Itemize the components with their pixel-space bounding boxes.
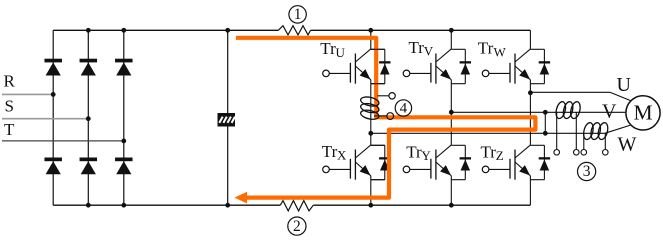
node top bus leg2	[86, 28, 91, 33]
label circled 3	[578, 162, 596, 180]
resistor 1 (circled-1) on top bus	[278, 26, 310, 35]
wire orange arrowhead (return to bus)	[235, 192, 248, 204]
node top bus leg3	[121, 28, 126, 33]
transistor TrU (IGBT)	[323, 49, 371, 84]
svg-text:R: R	[4, 72, 16, 91]
label TrY	[406, 142, 431, 163]
node U-leg bottom bus	[368, 203, 373, 208]
svg-text:4: 4	[400, 100, 408, 116]
wire CT-W secondary drop right	[604, 133, 606, 149]
label TrZ	[481, 142, 504, 163]
wire W-leg mid	[529, 80, 531, 145]
node R junction	[51, 92, 56, 97]
wire shorting link V to lower line	[544, 112, 546, 133]
node bottom bus leg2	[86, 203, 91, 208]
label TrV	[409, 38, 434, 59]
label circled 2	[288, 217, 306, 235]
wire rectifier leg 1 vertical	[52, 30, 54, 205]
wire U-leg bottom (TrX emitter to bus)	[370, 176, 372, 205]
label R	[4, 72, 16, 91]
label circled 4	[395, 100, 411, 116]
wire W-phase output slant to motor	[610, 92, 631, 101]
wire W-phase output horizontal	[530, 91, 610, 93]
wire top DC bus (right of resistor 1)	[311, 29, 531, 31]
motor M	[626, 96, 660, 130]
svg-text:W: W	[494, 44, 507, 59]
wire V-leg mid	[450, 80, 452, 145]
wire input R	[2, 93, 53, 95]
svg-text:T: T	[4, 120, 15, 139]
terminal CT-V left	[554, 150, 560, 156]
wire U-leg lower (node to TrX)	[370, 133, 372, 145]
diode TrV freewheel	[451, 49, 471, 83]
node V-leg top bus	[449, 28, 454, 33]
node capacitor top on bus	[225, 28, 230, 33]
node V-leg bottom bus	[449, 203, 454, 208]
diode D2 (upper rectifier)	[80, 59, 98, 76]
label circled 1	[289, 6, 306, 23]
terminal CT4 top	[389, 93, 395, 99]
diode TrW freewheel	[530, 49, 550, 83]
terminal CT4 bottom	[387, 113, 394, 120]
wire rectifier leg 2 vertical	[87, 30, 89, 205]
wire input S	[2, 118, 88, 120]
wire CT4 secondary bottom	[374, 115, 387, 117]
wire V-phase output	[451, 111, 626, 113]
diode D3 (upper rectifier)	[115, 59, 133, 76]
label TrU	[320, 39, 345, 60]
label T	[4, 120, 15, 139]
label S	[5, 97, 14, 116]
svg-text:2: 2	[293, 218, 301, 235]
resistor 2 (circled-2) on bottom bus	[280, 201, 313, 211]
diode TrX connectors overlay	[371, 145, 385, 179]
svg-text:3: 3	[583, 163, 591, 180]
svg-text:U: U	[336, 45, 346, 60]
svg-text:U: U	[617, 74, 632, 96]
diode D4 (lower rectifier)	[44, 158, 62, 175]
svg-text:V: V	[602, 101, 617, 123]
svg-text:Tr: Tr	[481, 142, 497, 161]
svg-text:X: X	[337, 148, 347, 163]
wire capacitor leg upper	[227, 30, 229, 113]
transistor TrW (IGBT)	[482, 49, 530, 84]
wire U-leg collector	[370, 30, 372, 49]
label V motor terminal	[602, 101, 617, 123]
diode TrU freewheel	[371, 49, 391, 83]
node T junction	[121, 139, 126, 144]
wire V-leg collector	[450, 30, 452, 49]
svg-text:Tr: Tr	[320, 39, 336, 58]
node S junction	[86, 116, 91, 121]
node bottom bus leg3	[121, 203, 126, 208]
wire W-leg bottom	[529, 176, 531, 205]
diode D6 (lower rectifier)	[115, 158, 133, 175]
svg-text:Tr: Tr	[322, 142, 338, 161]
wire input T	[2, 140, 124, 142]
label W motor terminal	[618, 133, 637, 155]
wire top DC bus (left of resistor 1)	[53, 29, 278, 31]
wire U-phase output (lower)	[371, 132, 605, 134]
transformer CT4 coil on U leg	[360, 95, 380, 120]
node link bottom	[543, 131, 548, 136]
svg-text:1: 1	[294, 6, 302, 23]
diode TrZ freewheel	[530, 145, 550, 179]
wire U-leg mid (emitter to node)	[370, 80, 372, 134]
transformer CT-W coil (circled-3 sensor)	[582, 122, 609, 141]
transistor TrY (IGBT)	[403, 145, 451, 180]
diode TrY freewheel	[451, 145, 471, 179]
svg-text:Tr: Tr	[406, 142, 422, 161]
transistor TrX (IGBT)	[323, 145, 371, 180]
capacitor C1 (DC link)	[218, 113, 236, 127]
svg-text:Tr: Tr	[409, 38, 425, 57]
node U-phase output on leg	[368, 131, 373, 136]
svg-text:Z: Z	[496, 148, 504, 163]
label TrX	[322, 142, 347, 163]
svg-text:W: W	[618, 133, 637, 155]
node W-phase output	[528, 90, 533, 95]
wire CT-V secondary drop left	[556, 112, 558, 149]
wire CT-W secondary drop left	[583, 133, 585, 149]
wire CT-V secondary drop right	[575, 112, 577, 149]
wire bottom DC bus (right of resistor 2)	[313, 204, 530, 206]
wire bottom DC bus (left of resistor 2)	[53, 204, 280, 206]
node U-leg top bus	[368, 28, 373, 33]
transistor TrV (IGBT)	[403, 49, 451, 84]
transistor TrZ (IGBT)	[482, 145, 530, 180]
label U motor terminal	[617, 74, 632, 96]
wire V-leg bottom	[450, 176, 452, 205]
terminal CT-W left	[581, 150, 587, 156]
svg-text:Y: Y	[421, 148, 431, 163]
node link top	[543, 110, 548, 115]
wire lower output to motor slant	[605, 125, 631, 133]
transformer CT-V coil (circled-3 sensor)	[554, 101, 581, 120]
diode D1 (upper rectifier)	[44, 59, 62, 76]
svg-text:Tr: Tr	[478, 39, 494, 58]
diode D5 (lower rectifier)	[80, 158, 98, 175]
wire W-leg collector	[529, 30, 531, 49]
wire rectifier leg 3 vertical	[123, 30, 125, 205]
terminal CT-W right	[603, 150, 609, 156]
terminal CT-V right	[574, 150, 580, 156]
wire capacitor leg lower	[227, 127, 229, 206]
diode TrU connectors overlay	[371, 49, 385, 83]
svg-text:S: S	[5, 97, 14, 116]
diode TrX freewheel	[371, 145, 391, 179]
wire orange current path (1-4-2 loop)	[236, 38, 535, 198]
node V-phase output	[449, 110, 454, 115]
svg-text:V: V	[424, 44, 434, 59]
node capacitor bottom on bus	[225, 203, 230, 208]
svg-text:M: M	[633, 101, 652, 125]
wire CT4 secondary top	[378, 95, 389, 97]
label TrW	[478, 39, 507, 60]
